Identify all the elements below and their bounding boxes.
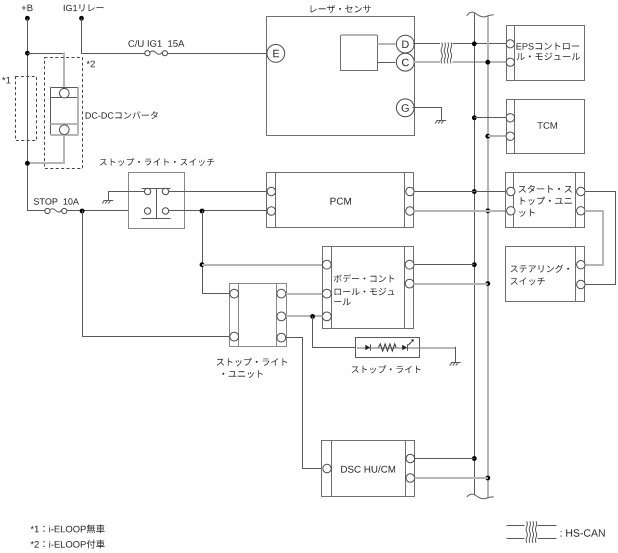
module TCM [507,100,585,154]
wire (light) inside stop light assembly [357,347,419,349]
junction DC-DC return on +B line [25,161,30,166]
junction CAN-L PCM [485,208,490,213]
junction +B / DC-DC branch [25,51,30,56]
TCM pin 2 [506,132,514,140]
EPS pin 2 [506,58,514,66]
label TCM [537,122,557,129]
wire STOP fuse to stop light switch [67,210,144,212]
steering switch pin 1 [577,261,585,269]
junction stop lamp signal branch [200,209,205,214]
junction CAN-H laser sensor [472,41,477,46]
module steering switch [506,247,585,302]
wire switch to PCM pin 2 [169,210,267,212]
BCM pin 2 [322,289,331,298]
DC-DC converter component [51,88,79,136]
stop light unit pin 1 left [230,289,239,298]
label start stop unit line 3 [519,209,534,217]
fuse C/U IG1 15A symbol [145,51,168,56]
wire (light) terminal C to twist (CAN-L) [413,61,440,63]
label BCM line 2 [335,288,395,295]
PCM pin 3 right [406,187,414,195]
wire (light) stop light unit to BCM pin 2 [286,293,323,295]
bus continuation break bottom [467,494,494,499]
legend HS-CAN text [561,529,605,536]
junction CAN-L TCM [485,134,490,139]
wire DSC to CAN-H [415,458,475,460]
junction CAN-H BCM [472,262,477,267]
stop light switch contact mechanism [142,189,171,219]
laser sensor inner unit top edge (light) [341,34,377,36]
fuse C/U IG1 15A value label [128,40,184,47]
DSC pin 3 right [406,474,415,483]
label DC-DC converter [86,111,158,119]
stop light resistor zigzag [378,344,396,351]
wire terminal G to ground [413,108,442,121]
label BCM line 1 [334,274,394,282]
wire switch to PCM pin 1 [169,191,267,193]
label stop light unit line 2 [222,370,263,378]
wire (light) DSC to CAN-L [415,477,488,479]
wire STOP feed down to stop light unit [83,211,230,337]
junction CAN-L BCM [485,281,490,286]
wire (light) twist to EPS pin 2 (CAN-L) [453,61,507,63]
laser sensor box [267,17,415,136]
junction STOP feed branch [80,209,85,214]
label DSC HU/CM [341,466,395,473]
wire (light) BCM to CAN-L [414,283,488,285]
terminal G letter [402,104,409,112]
stop light assembly box [356,338,420,358]
label BCM line 3 [334,298,351,305]
wire (light) PCM to start stop unit pin 2 (CAN-L) [414,210,507,212]
wire +B feed down to STOP fuse [28,19,45,211]
junction branch to body control module [200,262,205,267]
start stop unit pin 2 [507,207,515,215]
label *2 [87,61,95,68]
wire (light) start stop unit to steering switch inner [585,211,603,265]
wire branch down to stop light [313,317,356,348]
BCM pin 3 [322,312,331,321]
start stop unit pin 4 [577,207,585,215]
ground at stop light switch [102,201,113,204]
label PCM [330,198,351,205]
wire CAN-H to TCM pin 1 [474,117,506,119]
wire (light) down to DC-DC converter top terminal [63,53,65,89]
stop light unit pin 5 right [277,333,286,342]
module body control module [323,247,414,329]
junction CAN-H PCM [472,189,477,194]
wire IG1 relay to C/U IG1 fuse [82,19,145,54]
bus HS-CAN high line [474,13,476,495]
label start stop unit line 1 [519,185,572,193]
label EPS control module line 2 [517,53,580,61]
node +B terminal dot [25,16,30,21]
ground at stop light [450,363,461,366]
terminal G [396,99,414,117]
label EPS control module line 1 [517,42,580,49]
terminal C [396,53,414,71]
module PCM [267,173,414,228]
stop light unit pin 3 right [277,289,286,298]
fuse STOP 10A symbol [45,208,67,213]
BCM pin 5 right [405,279,414,288]
start stop unit pin 1 [507,187,515,195]
wire BCM to CAN-H [414,264,474,266]
wire stop light ground drop [455,347,457,363]
wire stop light unit to DSC HU/CM [286,338,323,469]
node +B label [22,5,33,12]
label laser sensor [311,5,371,13]
switch contact bottom-right [162,208,168,214]
label stop light switch [100,158,214,166]
TCM pin 1 [506,114,514,122]
BCM pin 4 right [405,260,414,269]
wire (light) inner unit to terminal D [378,43,396,45]
wire terminal D to twist (CAN-H) [413,43,440,45]
steering switch pin 2 [577,280,585,288]
wire inner unit to terminal C [378,62,396,64]
dashed box option *1 (no i-ELOOP) [16,77,37,141]
wire (light) DC-DC return to +B line [27,162,65,164]
stop light diode symbol left [365,345,370,351]
wire start stop unit to steering switch outer [585,192,616,285]
junction CAN-H DSC [472,456,477,461]
note *1 i-ELOOP without [31,524,105,533]
label steering switch line 1 [511,265,570,273]
wire branch down to stop light unit pin 1 [203,211,230,294]
terminal D [396,35,414,53]
wire (light) CAN-L to TCM pin 2 [488,135,506,137]
wire fuse to laser sensor pin E [168,53,268,55]
label *1 [2,77,10,84]
PCM pin 1 left [267,187,275,195]
node IG1 relay label [64,4,104,11]
twisted pair symbol laser sensor CAN [441,43,452,64]
start stop unit pin 3 [577,187,585,195]
label start stop unit line 2 [521,197,572,205]
module start stop unit [506,173,585,228]
junction CAN-H TCM [472,115,477,120]
terminal C letter [402,59,409,67]
stop light unit pin 2 left [230,332,239,341]
wire (light) DC-DC bottom terminal down [63,135,65,163]
switch contact bottom-left [144,208,150,214]
fuse STOP 10A value label [34,198,79,204]
module stop light unit [230,284,287,347]
laser sensor inner unit box [341,36,378,71]
BCM pin 1 [322,260,331,269]
label stop light [352,365,421,373]
junction stop light drive branch [310,314,315,319]
dashed box option *2 (with i-ELOOP) [45,58,83,169]
wire (light) stop light unit to BCM pin 3 [286,315,323,317]
stop light diode symbol right [402,345,407,351]
label stop light unit line 1 [217,358,288,366]
stop light switch box [129,173,185,229]
switch contact top-right [162,188,168,194]
wire +B junction to DC-DC converter top [27,53,63,55]
terminal E [267,45,285,63]
PCM pin 2 left [267,207,275,215]
junction CAN-L laser sensor [485,60,490,65]
module EPS control module [507,26,585,81]
bus HS-CAN low line (light) [487,17,489,499]
node IG1 relay terminal dot [79,16,84,21]
terminal D letter [402,41,408,48]
switch contact top-left [144,188,150,194]
PCM pin 4 right [406,207,414,215]
EPS pin 1 [506,40,514,48]
label steering switch line 2 [511,278,545,286]
legend HS-CAN twisted pair symbol [507,526,557,539]
bus continuation break top [467,12,494,17]
wire twist to EPS pin 1 (CAN-H) [453,43,507,45]
stop light arrow (lamp indicator) [408,342,411,345]
wire switch to ground [109,192,145,201]
DSC pin 2 right [406,454,415,463]
stop light unit pin 4 right [277,312,286,321]
DSC pin 1 left [323,464,331,472]
ground at laser sensor [435,121,446,124]
terminal E letter [273,50,279,57]
wire PCM to start stop unit pin 1 (CAN-H) [414,191,507,193]
module DSC HU/CM [322,441,415,497]
junction CAN-L DSC [485,476,490,481]
wire (light) stop light to ground drop [420,347,455,349]
legend twisted pair squiggle [526,521,537,543]
wire (light) branch to BCM pin 1 [202,264,322,266]
note *2 i-ELOOP with [31,540,105,549]
